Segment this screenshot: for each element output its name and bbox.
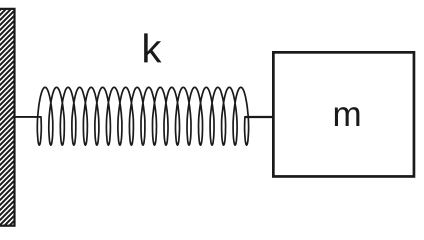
label k — [144, 33, 161, 62]
spring k (coil) — [37, 87, 248, 145]
wall (fixed support, hatched) — [0, 9, 15, 226]
label m — [335, 107, 360, 126]
mass m (block) — [273, 52, 414, 176]
wire from wall to spring — [13, 116, 41, 118]
wire from spring to mass — [245, 116, 274, 118]
